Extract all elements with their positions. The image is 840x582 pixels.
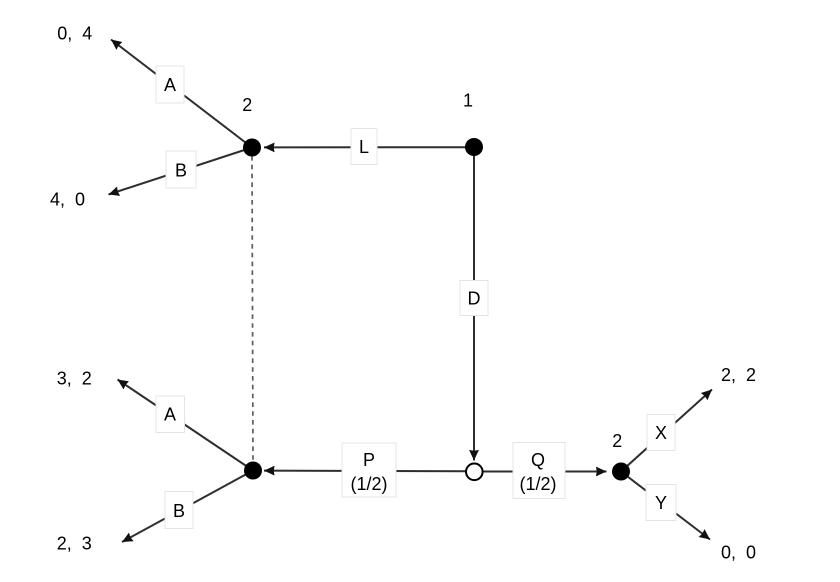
wire: edge A (top) from node 2 to payoff 0,4 [111,40,252,148]
label Q (1/2) on chance edge right [513,443,565,499]
svg-text:4, 0: 4, 0 [50,190,85,210]
label D (edge from 1 down) [460,281,488,316]
label B (bottom edge) [165,492,193,529]
svg-text:(1/2): (1/2) [350,474,387,494]
wire: edge D from node 1 down to chance node [473,155,475,461]
svg-text:A: A [164,405,176,425]
svg-text:B: B [175,160,187,180]
svg-text:3, 2: 3, 2 [57,368,92,388]
svg-text:0, 4: 0, 4 [57,23,92,43]
payoff 0, 4 [57,23,92,43]
payoff 2, 2 [721,365,756,385]
node label 1 [463,90,473,110]
svg-text:1: 1 [463,90,473,110]
svg-text:P: P [363,450,375,470]
svg-text:X: X [655,423,667,443]
node label 2 (right) [612,431,622,451]
payoff 4, 0 [50,190,85,210]
svg-text:2, 3: 2, 3 [57,534,92,554]
node 1 (player 1 decision node) [465,138,483,156]
wire: edge X from node 2 (right) to payoff 2,2 [621,390,712,472]
node label 2 (top-left) [242,95,252,115]
label P (1/2) on chance edge left [342,443,396,497]
svg-text:B: B [173,501,185,521]
node 2 top-left (player 2 decision node) [243,139,261,157]
wire: edge Y from node 2 (right) to payoff 0,0 [621,472,710,540]
payoff 0, 0 [721,543,756,563]
chance node (open circle) [466,464,483,481]
payoff 2, 3 [57,534,92,554]
node bottom-left (player 2 decision node, same information set) [244,462,262,480]
wire: edge A (bottom) from bottom-left node to payoff 3,2 [118,380,254,471]
payoff 3, 2 [57,368,92,388]
svg-text:0, 0: 0, 0 [721,543,756,563]
label L (edge from 1 to 2) [351,129,377,165]
svg-text:L: L [359,137,369,157]
wire: edge L from node 1 to node 2 (top) [264,146,466,148]
wire: information set dashed line between node 2 (top) and bottom-left node [252,156,253,462]
svg-text:2: 2 [242,95,252,115]
wire: edge Q from chance node to node 2 (right) [483,471,607,473]
svg-text:D: D [468,289,481,309]
label X (right edge up) [647,415,675,451]
label Y (right edge down) [646,485,676,521]
wire: edge B (top) from node 2 to payoff 4,0 [109,148,253,195]
wire: edge P from chance node to bottom-left node [264,470,466,473]
label B (top edge) [166,151,196,188]
node 2 right (player 2 decision node) [612,463,630,481]
svg-text:2, 2: 2, 2 [721,365,756,385]
label A (bottom edge) [156,396,185,433]
svg-text:Y: Y [655,493,667,513]
svg-text:Q: Q [531,450,545,470]
svg-text:2: 2 [612,431,622,451]
svg-text:A: A [164,75,176,95]
label A (top edge) [156,66,184,103]
wire: edge B (bottom) from bottom-left node to payoff 2,3 [122,471,253,543]
svg-text:(1/2): (1/2) [519,474,556,494]
